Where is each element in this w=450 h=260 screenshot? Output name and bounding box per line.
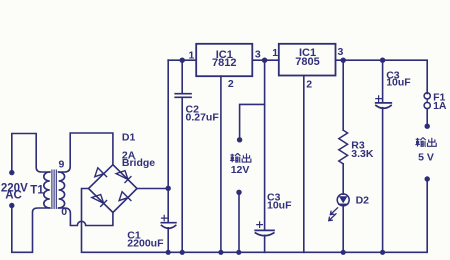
svg-text:2: 2 xyxy=(306,78,312,90)
svg-text:5 V: 5 V xyxy=(418,152,434,164)
diode D1d bottom-right xyxy=(119,192,131,201)
wire IC1 7805 pin 3 output rail to fuse xyxy=(336,60,428,93)
wire IC1 7812 pin 1 input xyxy=(168,59,196,61)
svg-text:3: 3 xyxy=(338,46,344,58)
wire AC bottom lead to transformer primary xyxy=(12,208,50,252)
wire C2 upper lead xyxy=(181,60,183,93)
svg-text:T1: T1 xyxy=(30,184,44,196)
wire LED D2 to ground rail xyxy=(342,206,344,253)
node bridge DC+ junction dot xyxy=(166,186,171,191)
wire secondary terminal 0 to bridge bottom vertex with hop xyxy=(59,208,113,226)
svg-text:AC: AC xyxy=(5,189,22,201)
op-amp box IC1 7812 regulator xyxy=(196,44,252,76)
svg-text:3: 3 xyxy=(255,48,261,60)
wire AC top lead to transformer primary xyxy=(12,134,50,173)
wire IC1 7805 pin 2 to ground xyxy=(303,76,305,253)
wire R3 to LED D2 xyxy=(342,164,344,194)
svg-text:1A: 1A xyxy=(433,100,447,112)
capacitor C1 curved plate xyxy=(162,225,176,228)
capacitor C1 top plate xyxy=(161,222,176,224)
svg-text:2: 2 xyxy=(228,78,234,90)
capacitor C2 plates xyxy=(175,94,191,98)
node 5V output terminal bottom dot xyxy=(425,176,430,181)
resistor R3 zigzag xyxy=(339,130,348,164)
LED D2 emission arrows xyxy=(329,208,338,221)
wire 12V output tap xyxy=(240,104,265,137)
node 12V output terminal bottom dot xyxy=(236,190,241,195)
wire positive rail vertical to C1 xyxy=(167,60,169,221)
svg-text:1: 1 xyxy=(189,49,195,61)
wire secondary terminal 9 to bridge top vertex xyxy=(59,133,113,172)
label shuchu 12V output chinese xyxy=(230,153,251,162)
fuse F1 upper circle xyxy=(424,93,430,99)
LED D2 circle xyxy=(337,194,349,206)
fuse F1 lower circle xyxy=(424,102,430,108)
capacitor C3 mid curved plate xyxy=(255,233,273,236)
svg-text:9: 9 xyxy=(59,158,65,170)
AC source terminal bottom dot xyxy=(9,203,14,208)
svg-text:12V: 12V xyxy=(231,164,250,176)
diode D1a top-left xyxy=(95,168,107,177)
wire 12V return to ground rail xyxy=(238,195,240,252)
svg-text:Bridge: Bridge xyxy=(122,157,155,169)
diode D1c bottom-left xyxy=(92,195,107,207)
node C2 junction dot xyxy=(180,58,185,63)
node 7805 input junction dot xyxy=(262,58,267,63)
svg-text:3.3K: 3.3K xyxy=(351,148,374,160)
wire C3 right to ground rail xyxy=(382,108,384,253)
wire 12V rail vertical xyxy=(264,60,266,230)
wire IC1 7812 pin 2 to ground xyxy=(220,76,222,252)
wire C1 to ground rail xyxy=(167,228,169,253)
capacitor C3 right top plate xyxy=(376,102,392,104)
LED D2 triangle xyxy=(339,196,348,203)
transformer T1 primary winding xyxy=(44,172,50,208)
svg-text:1: 1 xyxy=(272,47,278,59)
LED D2 cathode bar xyxy=(339,203,348,205)
node C3 right junction dot xyxy=(380,58,385,63)
svg-text:10uF: 10uF xyxy=(267,200,292,212)
svg-text:10uF: 10uF xyxy=(386,76,411,88)
label shuchu 5V output chinese xyxy=(415,138,436,147)
svg-text:7812: 7812 xyxy=(212,57,236,69)
svg-text:D2: D2 xyxy=(356,195,370,207)
wire C3 right upper lead xyxy=(382,60,384,102)
bridge rectifier D1 diamond xyxy=(89,165,138,213)
C3 mid plus sign xyxy=(257,222,263,228)
svg-text:2200uF: 2200uF xyxy=(127,237,164,249)
svg-text:0.27uF: 0.27uF xyxy=(186,112,220,124)
capacitor C3 right curved plate xyxy=(376,105,391,108)
C1 plus sign xyxy=(162,215,167,220)
node R3 junction dot xyxy=(341,58,346,63)
op-amp box IC1 7805 regulator xyxy=(279,44,336,76)
wire IC1 7812 pin 3 to IC1 7805 pin 1 xyxy=(252,59,278,61)
svg-text:7805: 7805 xyxy=(295,56,319,68)
svg-text:0: 0 xyxy=(61,206,67,218)
wire R3 upper lead xyxy=(342,60,344,130)
AC source terminal top dot xyxy=(9,170,14,175)
node ground rail junction dots xyxy=(166,250,386,255)
wire bridge left vertex to ground rail and bottom rail to 5V terminal xyxy=(82,182,428,253)
diode D1b top-right xyxy=(116,171,131,183)
transformer T1 core xyxy=(52,170,56,209)
wire bridge right vertex to positive rail xyxy=(137,188,168,190)
capacitor C3 mid top plate xyxy=(255,229,274,231)
node 12V output terminal top dot xyxy=(237,137,242,142)
wire fuse to 5V terminal xyxy=(426,109,428,124)
C3 right plus sign xyxy=(376,96,382,102)
transformer T1 secondary winding xyxy=(59,172,65,208)
wire C2 to ground rail xyxy=(181,98,183,253)
wire C3 mid to ground rail xyxy=(264,235,266,252)
svg-text:D1: D1 xyxy=(122,132,136,144)
node 5V output terminal top dot xyxy=(425,124,430,129)
